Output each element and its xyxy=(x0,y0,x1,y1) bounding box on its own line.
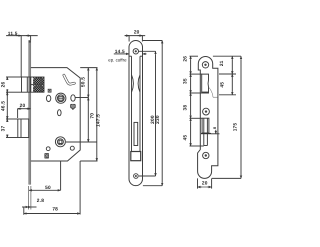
svg-text:2.8: 2.8 xyxy=(37,198,44,204)
svg-text:14.5: 14.5 xyxy=(115,49,125,55)
svg-text:20: 20 xyxy=(202,181,208,187)
svg-text:37: 37 xyxy=(1,126,7,132)
svg-text:ep. coffre: ep. coffre xyxy=(108,58,127,63)
svg-text:70: 70 xyxy=(90,113,96,119)
svg-text:21: 21 xyxy=(219,60,225,66)
svg-text:200: 200 xyxy=(150,115,156,124)
svg-text:11.5: 11.5 xyxy=(8,31,18,37)
svg-text:78: 78 xyxy=(52,207,58,213)
svg-text:50.5: 50.5 xyxy=(81,77,87,87)
svg-text:50: 50 xyxy=(45,185,51,191)
svg-text:20: 20 xyxy=(134,29,140,35)
svg-text:35: 35 xyxy=(183,78,189,84)
svg-text:147.5: 147.5 xyxy=(96,114,102,127)
svg-text:45: 45 xyxy=(219,82,225,88)
svg-text:26: 26 xyxy=(1,82,7,88)
svg-text:8: 8 xyxy=(213,127,217,129)
svg-text:26: 26 xyxy=(183,56,189,62)
svg-text:20: 20 xyxy=(20,103,26,109)
svg-text:46.5: 46.5 xyxy=(1,101,7,111)
svg-text:45: 45 xyxy=(183,135,189,141)
svg-text:230: 230 xyxy=(155,115,161,124)
svg-text:175: 175 xyxy=(232,123,238,132)
svg-text:38: 38 xyxy=(183,105,189,111)
